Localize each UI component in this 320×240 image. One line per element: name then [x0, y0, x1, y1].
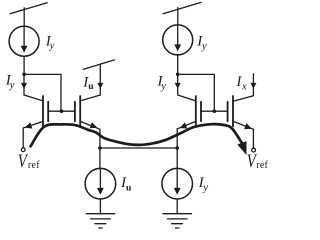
wire drain lead into M2	[80, 95, 100, 101]
current source I4 (Iy tail)	[162, 168, 193, 199]
gate node junction dot	[60, 109, 64, 113]
svg-text:u: u	[126, 184, 132, 194]
wire I3 to ground	[99, 199, 101, 214]
wire Iu branch with arrow	[97, 64, 103, 95]
current source I2 (Iy)	[163, 25, 193, 55]
supply rail slash (left Iy source)	[10, 3, 47, 14]
svg-text:y: y	[49, 41, 55, 52]
wire M4 source lead with arrow to Vref terminal	[233, 121, 253, 148]
wire I4 to ground	[176, 199, 178, 214]
wire M1 source lead with arrow to Vref terminal	[23, 121, 43, 147]
node C junction dot	[176, 73, 180, 77]
label Iu (tail source I3)	[120, 175, 132, 193]
transistor M1	[43, 96, 48, 126]
wire drain lead into M3	[178, 95, 196, 101]
supply rail slash (right Iy source)	[163, 2, 201, 13]
svg-text:y: y	[160, 81, 166, 92]
label Vref (right)	[247, 151, 269, 172]
label Iy (right branch)	[157, 74, 167, 92]
wire M2 source lead with arrow down to tail node	[80, 121, 100, 168]
label Vref (left)	[18, 150, 40, 171]
wire slash to current source I2	[177, 8, 179, 26]
wire gate line M1-M2	[48, 110, 75, 112]
label Ix (right pair branch)	[235, 74, 247, 92]
transistor M2	[75, 96, 80, 126]
node B junction dot	[98, 146, 102, 150]
wire slash to current source I1	[23, 8, 25, 27]
label Iy (left branch)	[5, 72, 15, 91]
svg-text:y: y	[202, 182, 208, 193]
signal flow thick curve Vref-left to Vref-right	[31, 124, 251, 157]
wire node C down with Iy branch arrow	[175, 74, 181, 95]
label Iy (source I1)	[45, 33, 55, 51]
wire gate line M3-M4	[201, 110, 228, 112]
wire drain lead into M4	[233, 96, 253, 102]
node A junction dot	[22, 73, 26, 77]
gate node junction dot	[213, 109, 217, 113]
label Iy (source I2)	[196, 34, 207, 52]
svg-text:ref: ref	[256, 160, 268, 171]
svg-text:V: V	[18, 150, 29, 171]
supply rail slash (Iu branch)	[83, 60, 114, 70]
wire drain lead into M1	[24, 95, 43, 101]
ground (right)	[163, 214, 191, 228]
label Iy (tail source I4)	[198, 175, 209, 193]
svg-text:y: y	[201, 41, 207, 52]
svg-text:y: y	[9, 80, 15, 91]
wire node C to gate feed corner	[178, 74, 215, 111]
transistor M3	[196, 96, 201, 126]
Vref terminal (right, open circle)	[252, 148, 256, 152]
wire I1 to node A	[23, 56, 25, 74]
wire Ix branch with arrow	[250, 74, 256, 96]
svg-text:u: u	[88, 82, 94, 92]
transistor M4	[228, 96, 233, 126]
current source I3 (Iu tail)	[85, 168, 116, 199]
wire I2 to node C	[177, 55, 179, 74]
wire node A down with Iy branch arrow	[21, 74, 27, 95]
Vref terminal (left, open circle)	[21, 148, 25, 152]
label Iu (left pair branch)	[82, 75, 94, 93]
wire M3 source lead with arrow down to tail node	[177, 121, 196, 168]
svg-text:x: x	[241, 82, 247, 93]
svg-text:ref: ref	[28, 160, 40, 171]
wire node A to gate feed corner	[24, 74, 61, 111]
wire tail bus node B to node C	[100, 147, 177, 149]
node D junction dot	[175, 146, 179, 150]
ground (left)	[86, 214, 114, 228]
current source I1 (Iy)	[9, 26, 39, 56]
